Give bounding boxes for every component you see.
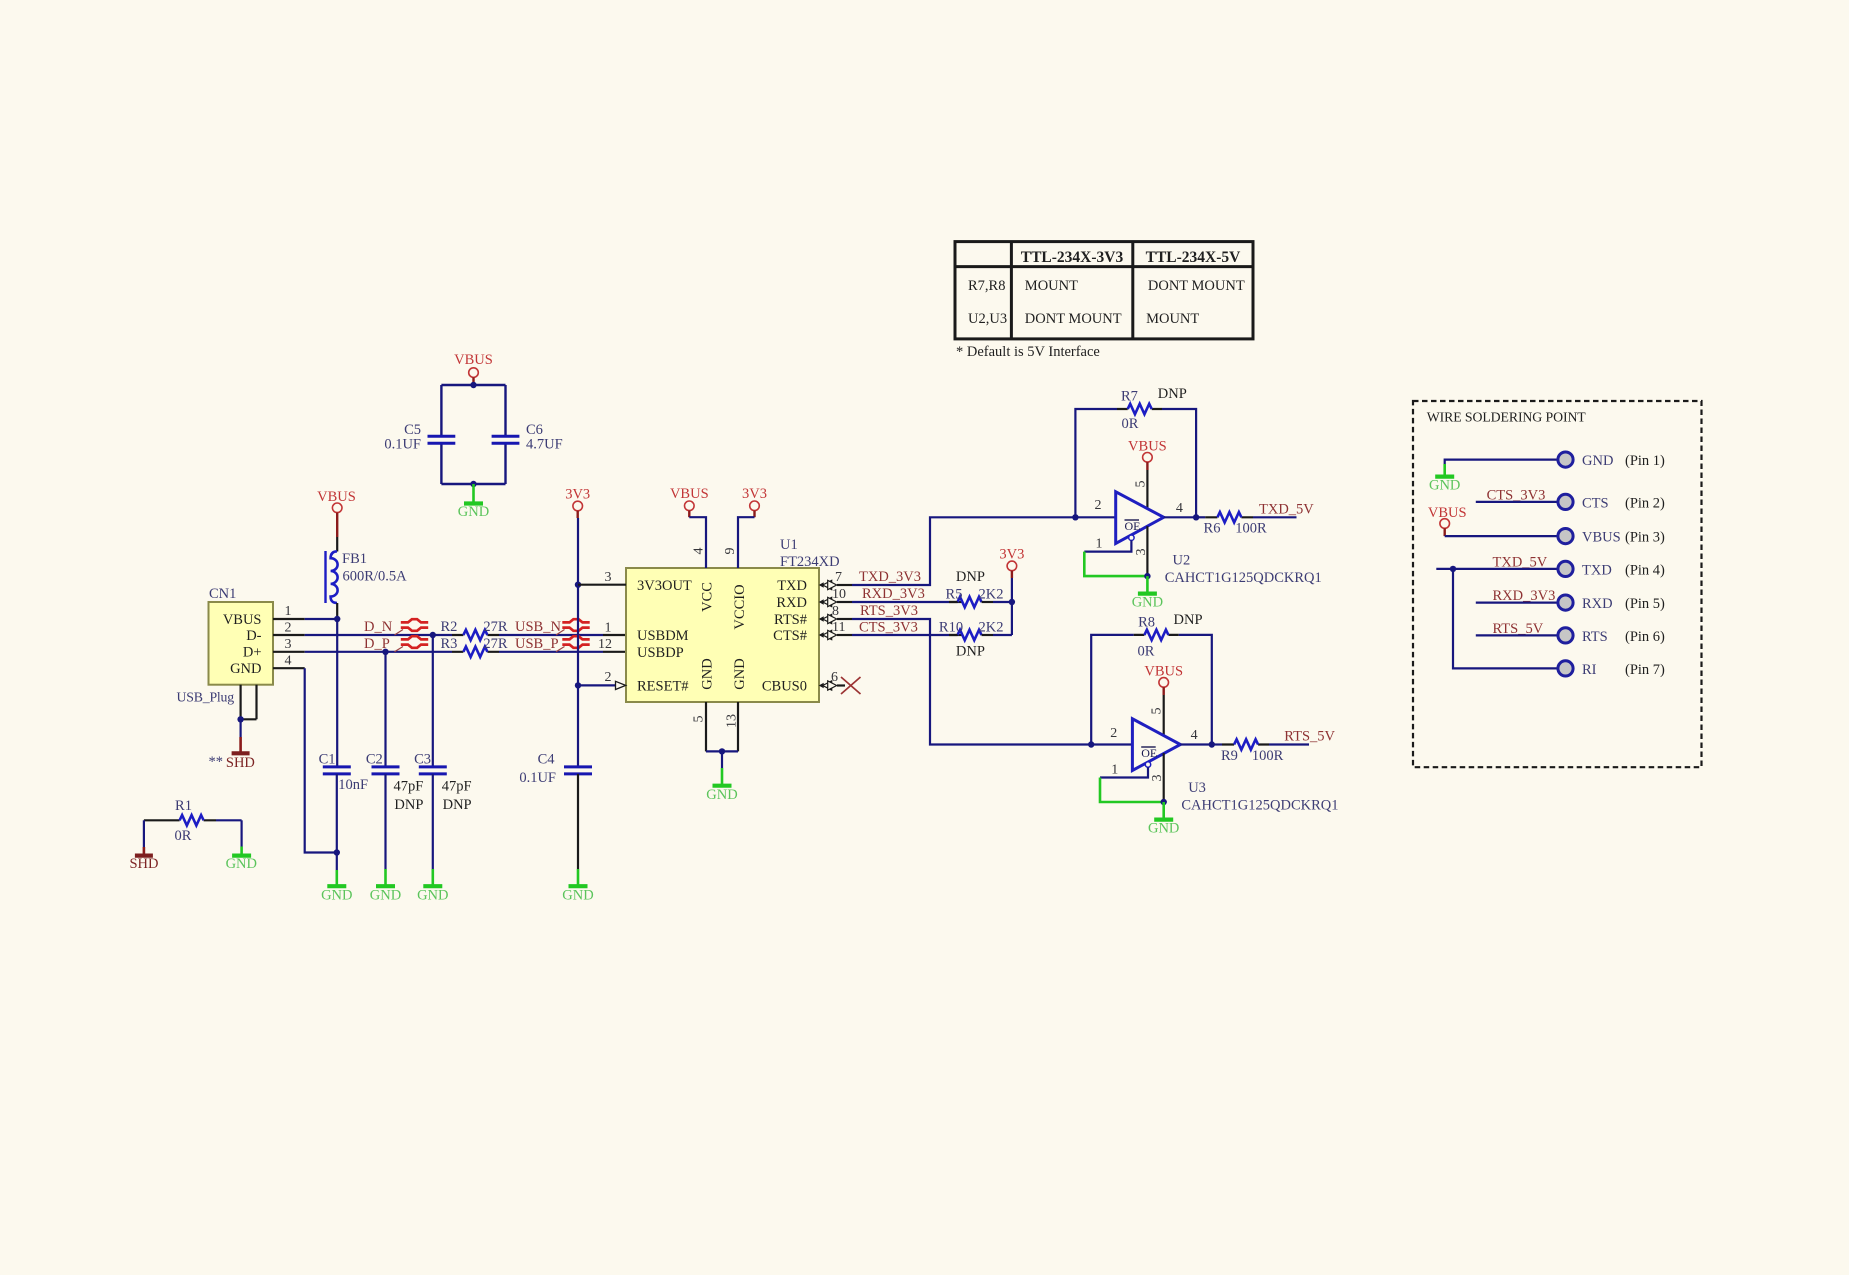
svg-text:U2,U3: U2,U3 bbox=[968, 311, 1007, 327]
svg-text:VBUS: VBUS bbox=[670, 486, 709, 502]
svg-text:3V3: 3V3 bbox=[999, 547, 1024, 563]
buffer U2 CAHCT1G125QDCKRQ1 bbox=[1116, 492, 1322, 586]
resistor R2 27R bbox=[440, 619, 507, 640]
power 3V3 (pull-ups) bbox=[999, 547, 1024, 579]
svg-text:4: 4 bbox=[1191, 728, 1198, 743]
pin 6 CBUS0 bbox=[819, 670, 845, 690]
svg-text:VCC: VCC bbox=[700, 582, 716, 612]
svg-text:R3: R3 bbox=[440, 636, 457, 652]
capacitor C2 47pF DNP bbox=[366, 652, 424, 869]
power 3V3 (U1 VCCIO) bbox=[742, 486, 767, 517]
svg-text:TTL-234X-5V: TTL-234X-5V bbox=[1146, 249, 1242, 266]
svg-text:600R/0.5A: 600R/0.5A bbox=[343, 569, 408, 585]
svg-text:VBUS: VBUS bbox=[454, 352, 493, 368]
svg-text:3V3: 3V3 bbox=[742, 486, 767, 502]
svg-text:MOUNT: MOUNT bbox=[1025, 278, 1078, 294]
svg-text:USB_P: USB_P bbox=[515, 636, 559, 652]
svg-text:10nF: 10nF bbox=[338, 777, 368, 793]
svg-text:D_P: D_P bbox=[364, 636, 390, 652]
svg-text:D_N: D_N bbox=[364, 619, 393, 635]
connector CN1 USB_Plug bbox=[177, 586, 274, 705]
pin 9 VCCIO bbox=[723, 517, 755, 568]
svg-text:R10: R10 bbox=[939, 620, 963, 636]
svg-text:DNP: DNP bbox=[1174, 612, 1203, 628]
svg-text:DNP: DNP bbox=[956, 569, 985, 585]
svg-text:SHD: SHD bbox=[129, 856, 158, 872]
differential pair marker (D_N) bbox=[395, 619, 429, 635]
svg-text:R7: R7 bbox=[1121, 389, 1138, 405]
power VBUS (U3) bbox=[1144, 664, 1183, 696]
svg-text:RESET#: RESET# bbox=[637, 679, 689, 695]
svg-text:2: 2 bbox=[285, 620, 292, 635]
wire GND pad lead bbox=[1445, 460, 1558, 464]
node R5 to 3V3 bbox=[1009, 599, 1015, 605]
wire VBUS vertical to C1 bbox=[336, 619, 338, 766]
svg-text:3: 3 bbox=[285, 637, 292, 652]
svg-text:DNP: DNP bbox=[443, 797, 472, 813]
svg-text:3V3: 3V3 bbox=[565, 487, 590, 503]
svg-text:RXD: RXD bbox=[1582, 596, 1613, 612]
wire D+ line bbox=[305, 651, 626, 653]
svg-text:TXD: TXD bbox=[777, 578, 807, 594]
pin 3 U3 GND bbox=[1150, 753, 1165, 802]
power VBUS (panel) bbox=[1428, 505, 1467, 536]
svg-text:R8: R8 bbox=[1138, 615, 1155, 631]
svg-text:6: 6 bbox=[831, 670, 838, 685]
svg-text:5: 5 bbox=[1134, 481, 1149, 488]
svg-text:**: ** bbox=[209, 754, 224, 770]
wire R1 right leg bbox=[241, 820, 243, 846]
svg-text:GND: GND bbox=[700, 658, 716, 689]
node RTS / R8 junction bbox=[1088, 741, 1094, 747]
svg-text:RTS_5V: RTS_5V bbox=[1284, 729, 1335, 745]
svg-text:USBDM: USBDM bbox=[637, 628, 689, 644]
svg-text:DNP: DNP bbox=[1158, 386, 1187, 402]
pin 8 RTS# bbox=[819, 604, 852, 624]
differential pair marker (USB_N) bbox=[556, 619, 590, 635]
svg-text:GND: GND bbox=[706, 787, 737, 803]
svg-text:C4: C4 bbox=[538, 752, 556, 768]
mount option table bbox=[955, 242, 1253, 339]
pin 3 3V3OUT bbox=[578, 570, 626, 585]
node RESET# tap bbox=[575, 682, 581, 688]
node C3 tap on D- bbox=[430, 632, 436, 638]
svg-text:CN1: CN1 bbox=[209, 586, 236, 602]
svg-text:CTS_3V3: CTS_3V3 bbox=[859, 620, 918, 636]
svg-text:8: 8 bbox=[832, 604, 839, 619]
pin 2 RESET# bbox=[578, 670, 626, 690]
svg-text:(Pin 2): (Pin 2) bbox=[1625, 495, 1665, 511]
svg-text:C2: C2 bbox=[366, 752, 383, 768]
pad CTS (Pin 2) bbox=[1558, 494, 1665, 511]
svg-text:VCCIO: VCCIO bbox=[732, 584, 748, 629]
svg-text:0.1UF: 0.1UF bbox=[519, 770, 556, 786]
capacitor C4 0.1UF bbox=[519, 752, 592, 870]
pad GND (Pin 1) bbox=[1558, 452, 1665, 469]
node GND bottom rail bbox=[470, 481, 476, 487]
buffer U3 CAHCT1G125QDCKRQ1 bbox=[1132, 719, 1338, 814]
capacitor C3 47pF DNP bbox=[414, 635, 472, 869]
pad RXD (Pin 5) bbox=[1558, 595, 1665, 612]
wire U1 ground tie bbox=[706, 748, 738, 768]
pin 1 CN1 VBUS bbox=[273, 604, 305, 619]
svg-text:R1: R1 bbox=[175, 798, 192, 814]
svg-text:VBUS: VBUS bbox=[223, 612, 262, 628]
svg-text:4: 4 bbox=[285, 654, 292, 669]
node U3 output / R8 junction bbox=[1209, 741, 1215, 747]
svg-text:GND: GND bbox=[1429, 478, 1460, 494]
resistor R7 0R DNP (feedback loop) bbox=[1075, 386, 1196, 517]
svg-text:10: 10 bbox=[832, 587, 846, 602]
pad VBUS (Pin 3) bbox=[1558, 529, 1665, 546]
svg-text:5: 5 bbox=[692, 716, 707, 723]
svg-text:GND: GND bbox=[417, 888, 448, 904]
svg-text:GND: GND bbox=[1582, 453, 1613, 469]
svg-text:TXD_3V3: TXD_3V3 bbox=[859, 569, 921, 585]
wire TXD to RI vertical bbox=[1453, 569, 1558, 669]
svg-text:R7,R8: R7,R8 bbox=[968, 278, 1005, 294]
pin 4 U3 output bbox=[1180, 728, 1211, 745]
svg-text:27R: 27R bbox=[483, 636, 508, 652]
svg-text:4: 4 bbox=[1176, 501, 1183, 516]
svg-text:TXD_5V: TXD_5V bbox=[1259, 502, 1314, 518]
differential pair marker (D_P) bbox=[395, 636, 429, 652]
svg-text:2: 2 bbox=[1095, 498, 1102, 513]
svg-text:CAHCT1G125QDCKRQ1: CAHCT1G125QDCKRQ1 bbox=[1181, 798, 1338, 814]
power VBUS (U1 VCC) bbox=[670, 486, 709, 517]
resistor R1 0R bbox=[144, 798, 242, 844]
ground (C1) bbox=[321, 870, 352, 904]
node VBUS top rail bbox=[470, 382, 476, 388]
node 3V3OUT tap bbox=[575, 582, 581, 588]
pin 3 CN1 D+ bbox=[273, 637, 305, 652]
pad RTS (Pin 6) bbox=[1558, 628, 1665, 645]
svg-text:2K2: 2K2 bbox=[979, 587, 1004, 603]
svg-text:3: 3 bbox=[1150, 775, 1165, 782]
wire R1 left leg bbox=[143, 820, 145, 847]
node C1 ground junction bbox=[334, 849, 340, 855]
svg-text:R6: R6 bbox=[1204, 521, 1221, 537]
svg-text:GND: GND bbox=[562, 888, 593, 904]
svg-text:47pF: 47pF bbox=[394, 779, 424, 795]
svg-text:4: 4 bbox=[692, 548, 707, 555]
wire C5/C6 parallel rails bbox=[441, 385, 505, 484]
wire 3V3 pull-up rail bbox=[1011, 578, 1013, 635]
power 3V3 (U1 left) bbox=[565, 487, 590, 519]
svg-text:2: 2 bbox=[1110, 726, 1117, 741]
pin 1 U2 OE bbox=[1084, 535, 1134, 552]
svg-text:GND: GND bbox=[1132, 595, 1163, 611]
ground (U1) bbox=[706, 768, 737, 803]
IC U1 FT234XD bbox=[626, 537, 840, 702]
pad TXD (Pin 4) bbox=[1558, 561, 1665, 578]
capacitor C6 4.7UF bbox=[492, 422, 563, 453]
svg-text:R2: R2 bbox=[440, 619, 457, 635]
power SHD (R1) bbox=[129, 847, 158, 872]
svg-text:GND: GND bbox=[226, 856, 257, 872]
svg-text:CTS: CTS bbox=[1582, 495, 1609, 511]
svg-text:0R: 0R bbox=[1122, 416, 1139, 432]
wire CN1 GND down to C1 foot bbox=[305, 668, 337, 852]
svg-text:TXD: TXD bbox=[1582, 562, 1612, 578]
resistor R3 27R bbox=[440, 636, 507, 657]
pin 4 CN1 GND bbox=[273, 654, 305, 669]
power SHD (CN1 shield) bbox=[209, 737, 255, 771]
pin 4 U2 output bbox=[1164, 501, 1196, 517]
ground (U3) bbox=[1148, 802, 1179, 837]
svg-text:(Pin 3): (Pin 3) bbox=[1625, 530, 1665, 546]
svg-text:CTS#: CTS# bbox=[773, 628, 807, 644]
pad RI (Pin 7) bbox=[1558, 661, 1665, 678]
svg-text:RTS#: RTS# bbox=[774, 612, 807, 628]
svg-text:(Pin 1): (Pin 1) bbox=[1625, 453, 1665, 469]
svg-text:(Pin 4): (Pin 4) bbox=[1625, 562, 1665, 578]
wire U3 OE to ground (green) bbox=[1100, 778, 1164, 803]
wire RXD pad lead bbox=[1476, 601, 1558, 603]
svg-text:R5: R5 bbox=[946, 587, 963, 603]
svg-text:U1: U1 bbox=[780, 537, 798, 553]
wire RTS pad lead bbox=[1476, 634, 1558, 636]
svg-text:RXD: RXD bbox=[776, 595, 807, 611]
ground (C2) bbox=[370, 869, 401, 904]
pin 5 U2 VBUS bbox=[1134, 470, 1149, 509]
wire VBUS pad lead bbox=[1445, 535, 1558, 537]
svg-text:RI: RI bbox=[1582, 662, 1597, 678]
svg-text:C3: C3 bbox=[414, 752, 431, 768]
resistor R6 100R bbox=[1196, 512, 1296, 536]
svg-text:1: 1 bbox=[1096, 537, 1103, 552]
svg-text:11: 11 bbox=[832, 620, 845, 635]
wire VBUS pin1 to FB1 bbox=[305, 618, 338, 620]
svg-text:(Pin 7): (Pin 7) bbox=[1625, 662, 1665, 678]
svg-text:GND: GND bbox=[230, 661, 261, 677]
resistor R8 0R DNP (feedback loop) bbox=[1091, 612, 1212, 745]
capacitor C1 10nF bbox=[319, 619, 368, 870]
svg-text:VBUS: VBUS bbox=[1582, 530, 1621, 546]
svg-text:100R: 100R bbox=[1252, 748, 1284, 764]
node TXD / RI tie bbox=[1450, 566, 1456, 572]
node C2 tap on D+ bbox=[382, 649, 388, 655]
wire CTS net to R10 bbox=[852, 634, 962, 636]
svg-text:27R: 27R bbox=[483, 619, 508, 635]
resistor R9 100R bbox=[1212, 739, 1309, 764]
pin 10 RXD bbox=[819, 587, 852, 607]
svg-text:FT234XD: FT234XD bbox=[780, 554, 840, 570]
svg-text:3: 3 bbox=[1134, 549, 1149, 556]
svg-text:0R: 0R bbox=[175, 828, 192, 844]
svg-text:13: 13 bbox=[725, 714, 740, 728]
svg-text:1: 1 bbox=[1111, 763, 1118, 778]
svg-text:9: 9 bbox=[723, 548, 738, 555]
svg-text:DNP: DNP bbox=[394, 797, 423, 813]
pin 1 U3 OE bbox=[1100, 762, 1151, 778]
svg-text:2: 2 bbox=[605, 670, 612, 685]
resistor R5 2K2 DNP bbox=[946, 569, 1012, 607]
resistor R10 2K2 DNP bbox=[939, 620, 1012, 660]
svg-text:RTS: RTS bbox=[1582, 629, 1608, 645]
pin 5 GND bbox=[692, 702, 707, 751]
svg-text:USB_Plug: USB_Plug bbox=[177, 690, 235, 705]
ground (C5/C6) bbox=[458, 484, 489, 520]
svg-text:* Default is 5V Interface: * Default is 5V Interface bbox=[956, 344, 1100, 360]
differential pair marker (USB_P) bbox=[556, 636, 590, 652]
pin 4 VCC bbox=[689, 517, 706, 568]
pin 7 TXD bbox=[819, 570, 852, 590]
ground (C4) bbox=[562, 869, 593, 904]
svg-text:U3: U3 bbox=[1188, 780, 1206, 796]
svg-text:GND: GND bbox=[370, 888, 401, 904]
svg-text:MOUNT: MOUNT bbox=[1146, 311, 1199, 327]
ferrite bead FB1 600R/0.5A bbox=[326, 551, 408, 619]
svg-text:USB_N: USB_N bbox=[515, 619, 561, 635]
svg-text:100R: 100R bbox=[1235, 521, 1267, 537]
capacitor C5 0.1UF bbox=[384, 422, 455, 453]
svg-text:RXD_3V3: RXD_3V3 bbox=[862, 586, 925, 602]
svg-text:GND: GND bbox=[1148, 821, 1179, 837]
svg-text:CAHCT1G125QDCKRQ1: CAHCT1G125QDCKRQ1 bbox=[1165, 570, 1322, 586]
svg-text:(Pin 6): (Pin 6) bbox=[1625, 629, 1665, 645]
svg-text:47pF: 47pF bbox=[442, 779, 472, 795]
wire RTS net to U3 bbox=[852, 619, 1132, 745]
svg-text:(Pin 5): (Pin 5) bbox=[1625, 596, 1665, 612]
power VBUS (C5/C6 rail) bbox=[454, 352, 493, 385]
ground (R1) bbox=[226, 847, 257, 873]
svg-text:GND: GND bbox=[732, 658, 748, 689]
pin 11 CTS# bbox=[819, 620, 852, 640]
no-connect cross (CBUS0) bbox=[841, 677, 861, 694]
svg-text:USBDP: USBDP bbox=[637, 645, 684, 661]
svg-text:3V3OUT: 3V3OUT bbox=[637, 578, 692, 594]
svg-text:TTL-234X-3V3: TTL-234X-3V3 bbox=[1021, 249, 1124, 266]
svg-text:1: 1 bbox=[605, 620, 612, 635]
svg-text:D-: D- bbox=[246, 628, 261, 644]
wire D- line bbox=[305, 634, 626, 636]
ground (U2) bbox=[1132, 576, 1163, 610]
svg-text:GND: GND bbox=[321, 888, 352, 904]
node U3 ground junction bbox=[1161, 799, 1167, 805]
ground (panel) bbox=[1429, 464, 1460, 494]
svg-text:SHD: SHD bbox=[226, 755, 255, 771]
svg-text:C1: C1 bbox=[319, 752, 336, 768]
svg-text:DONT MOUNT: DONT MOUNT bbox=[1025, 311, 1122, 327]
svg-text:7: 7 bbox=[835, 570, 842, 585]
svg-text:5: 5 bbox=[1150, 708, 1165, 715]
wire shield stubs below CN1 bbox=[237, 685, 256, 737]
svg-text:D+: D+ bbox=[243, 645, 262, 661]
svg-text:CBUS0: CBUS0 bbox=[762, 679, 807, 695]
svg-text:4.7UF: 4.7UF bbox=[526, 437, 563, 453]
power VBUS (FB1) bbox=[317, 489, 356, 552]
wire U2 OE to ground (green) bbox=[1084, 552, 1147, 577]
svg-text:1: 1 bbox=[285, 604, 292, 619]
pin 2 CN1 D- bbox=[273, 620, 305, 635]
svg-text:GND: GND bbox=[458, 504, 489, 520]
node TXD / R7 junction bbox=[1072, 514, 1078, 520]
wire CTS pad lead bbox=[1476, 501, 1558, 503]
svg-text:DNP: DNP bbox=[956, 644, 985, 660]
wire TXD pad lead bbox=[1436, 568, 1558, 570]
svg-text:3: 3 bbox=[605, 570, 612, 585]
wire 3V3 vertical (pin3/RESET#/C4) bbox=[577, 518, 579, 767]
pin 3 U2 GND bbox=[1134, 526, 1149, 576]
wire TXD net to U2 bbox=[852, 517, 1116, 585]
svg-text:U2: U2 bbox=[1173, 553, 1191, 569]
svg-text:2K2: 2K2 bbox=[979, 620, 1004, 636]
power VBUS (U2) bbox=[1128, 439, 1167, 471]
pin 13 GND bbox=[725, 702, 740, 751]
wire RXD net to R5 bbox=[852, 601, 962, 603]
pin 5 U3 VBUS bbox=[1150, 695, 1165, 736]
svg-text:0.1UF: 0.1UF bbox=[384, 437, 421, 453]
svg-text:DONT MOUNT: DONT MOUNT bbox=[1148, 278, 1245, 294]
svg-text:OE: OE bbox=[1141, 746, 1157, 760]
svg-text:OE: OE bbox=[1125, 519, 1141, 533]
svg-text:FB1: FB1 bbox=[342, 551, 367, 567]
svg-text:12: 12 bbox=[598, 637, 612, 652]
node FB1 / VBUS junction bbox=[334, 616, 340, 622]
svg-text:R9: R9 bbox=[1221, 748, 1238, 764]
svg-text:WIRE SOLDERING POINT: WIRE SOLDERING POINT bbox=[1427, 410, 1587, 425]
wire soldering point panel bbox=[1413, 401, 1702, 767]
node U2 output / R7 junction bbox=[1193, 514, 1199, 520]
svg-text:0R: 0R bbox=[1138, 644, 1155, 660]
node U2 ground junction bbox=[1144, 573, 1150, 579]
ground (C3) bbox=[417, 869, 448, 904]
svg-text:RTS_3V3: RTS_3V3 bbox=[860, 603, 918, 619]
